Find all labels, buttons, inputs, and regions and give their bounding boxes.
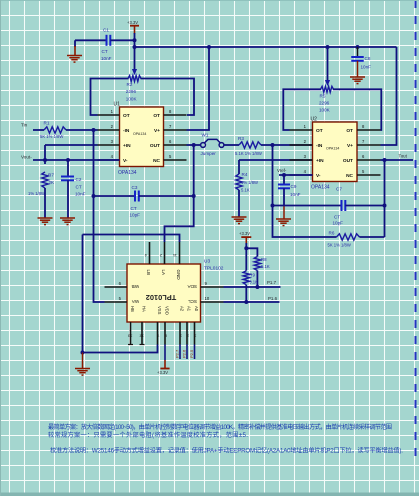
wire Vref- stub to U2 pin4 [279, 174, 313, 176]
wire C2 stem top [67, 160, 69, 177]
svg-text:CT: CT [102, 49, 108, 54]
resistor R1 [44, 127, 66, 133]
U2 pin 5 (NC) [357, 174, 381, 176]
svg-text:U3: U3 [204, 259, 210, 265]
U2 pin 1 (OT) [290, 129, 313, 131]
wire R6 right [360, 236, 385, 238]
wire feedback vertical right [384, 160, 386, 237]
power +3.3V down [164, 360, 166, 369]
svg-text:10nF: 10nF [361, 65, 372, 70]
wire +3.3V stem down [134, 33, 136, 47]
junction rail/R5 wiper [326, 45, 330, 49]
U3 pin 6 (WB) [105, 286, 128, 288]
svg-text:5K 1% 1/8W: 5K 1% 1/8W [328, 243, 351, 248]
wire loop right to U1 pin8 [141, 79, 195, 116]
junction Vout-/R7 [43, 158, 47, 162]
op-amp U1 OPA134 [120, 107, 164, 167]
svg-text:A2: A2 [180, 306, 185, 312]
svg-text:+3.3V: +3.3V [157, 370, 168, 375]
wire -IN U2 feedback down [273, 145, 337, 237]
U3 top pin 4 (LB) [149, 242, 151, 264]
svg-text:最简单方案：放大倍数固定(100~50)，由单片机控制数字电: 最简单方案：放大倍数固定(100~50)，由单片机控制数字电位器调节增益100K… [48, 423, 392, 431]
capacitor C9 [278, 185, 290, 189]
svg-text:TPL0102: TPL0102 [204, 266, 224, 272]
svg-text:5.1K: 5.1K [261, 264, 270, 269]
capacitor C2 [61, 177, 74, 181]
svg-text:2296: 2296 [319, 101, 330, 106]
U3 top pin 11 (GND) [179, 242, 181, 264]
svg-text:OT: OT [123, 113, 130, 119]
junction feedback/C3 [192, 194, 196, 198]
wire U2 OUT to Tout [381, 159, 414, 161]
capacitor C3 [135, 191, 139, 202]
capacitor C1 [107, 35, 111, 46]
wire loop right to U2 pin8 [333, 89, 381, 130]
digital potentiometer U3 TPL0102 [127, 264, 201, 322]
potentiometer R2 [128, 76, 141, 82]
svg-text:10nF: 10nF [290, 192, 301, 197]
wire pullup stem [245, 243, 247, 248]
U3 bottom pin 13 (HB) [130, 322, 132, 345]
svg-text:1% 1/8W: 1% 1/8W [28, 191, 45, 196]
U2 pin 6 (OUT) [357, 159, 381, 161]
U1 pin 2 (-IN) [98, 129, 120, 131]
U3 bottom pin 12 (HA) [141, 322, 143, 345]
svg-text:-IN: -IN [123, 128, 130, 134]
wire R1 to U1 pin2 [66, 129, 98, 131]
svg-text:10pF: 10pF [333, 221, 344, 226]
junction Vref/C9 [282, 173, 286, 177]
wire R2 wiper stem [134, 47, 136, 69]
wire R7 to ground [44, 188, 46, 218]
svg-text:OPA134: OPA134 [311, 185, 330, 191]
wire SDA / P1.7 [224, 286, 281, 288]
wire +IN down to R7 [44, 145, 46, 164]
svg-text:C8: C8 [365, 56, 371, 61]
U3 top pin 2 (LA) [164, 242, 166, 264]
svg-text:较常规方案一：只需要一个外部电阻(将基准作温度校准方式，范围: 较常规方案一：只需要一个外部电阻(将基准作温度校准方式，范围±5. [48, 431, 248, 439]
junction C7/vertical [383, 204, 387, 208]
wire C9 stem [283, 175, 285, 185]
U3 pin 9 (SDA) [201, 286, 224, 288]
U1 pin 7 (V+) [164, 129, 187, 131]
svg-text:LB: LB [146, 270, 151, 276]
wire U2 V+ to rail [381, 47, 397, 145]
svg-text:OT: OT [153, 113, 160, 119]
svg-text:10pF: 10pF [130, 213, 141, 218]
U3 bottom pin 7 (VSS) [157, 322, 159, 345]
op-amp U2 OPA134 [313, 122, 358, 182]
wire U3 VDD stem [164, 345, 166, 361]
svg-text:5K 1% 1/8W: 5K 1% 1/8W [40, 134, 63, 139]
svg-text:10nF: 10nF [101, 56, 112, 61]
svg-text:5.1K: 5.1K [241, 188, 250, 193]
U1 pin 8 (OT) [164, 114, 187, 116]
svg-text:Jumper: Jumper [201, 151, 217, 156]
svg-text:R8: R8 [261, 257, 267, 262]
svg-text:OPA134: OPA134 [133, 132, 146, 136]
svg-text:12: 12 [139, 334, 144, 339]
wire C1 right to +3.3V stem [110, 39, 134, 41]
ground near C1 [67, 56, 82, 63]
svg-text:CT: CT [131, 206, 137, 211]
svg-text:-IN: -IN [316, 143, 323, 149]
wire +3.3V rail [135, 46, 397, 48]
wire R4 to ground [238, 190, 240, 217]
power +3.3V pullups [241, 236, 251, 238]
junction R8/SDA [255, 285, 259, 289]
svg-text:Tin: Tin [21, 123, 28, 128]
svg-text:C1: C1 [103, 28, 109, 33]
svg-text:OPA134: OPA134 [326, 147, 339, 151]
wire U1 OUT to jumper [187, 144, 201, 146]
svg-text:+IN: +IN [316, 158, 324, 164]
wire R8 to SDA [256, 271, 258, 288]
resistor R8 [254, 257, 260, 271]
U1 pin 6 (OUT) [164, 144, 187, 146]
U2 pin 2 (-IN) [290, 144, 313, 146]
wire C1 left to ground riser [75, 39, 106, 41]
svg-text:VDD: VDD [165, 306, 170, 315]
svg-text:C9: C9 [291, 184, 297, 189]
junction C7 left [271, 204, 275, 208]
svg-text:WB: WB [132, 284, 139, 289]
svg-text:R7: R7 [48, 173, 54, 178]
svg-text:P1.6: P1.6 [268, 296, 278, 301]
wire SCL / P1.6 [224, 301, 280, 303]
junction R9/SCL [244, 300, 248, 304]
ground bottom left [75, 369, 90, 376]
junction rail/+3.3V [133, 45, 137, 49]
ground under C2 [60, 218, 75, 225]
junction OUT/feedback [192, 143, 196, 147]
svg-text:VSS: VSS [157, 306, 162, 315]
R2 wiper arrow [132, 69, 137, 75]
wire C9 lower stem [283, 188, 285, 205]
wire R4 node to U2 pin3 [239, 159, 313, 161]
U1 pin 3 (+IN) [98, 144, 120, 146]
wire C3 to OUT feedback [139, 195, 194, 197]
wire R5 wiper stem [327, 47, 329, 80]
svg-text:2296: 2296 [126, 89, 137, 94]
svg-text:5.1K 1% 1/8W: 5.1K 1% 1/8W [235, 151, 262, 156]
svg-text:+IN: +IN [123, 143, 131, 149]
svg-text:R5: R5 [320, 94, 326, 99]
svg-text:100K: 100K [126, 96, 138, 101]
svg-text:SDA: SDA [187, 284, 197, 289]
ground under R7 [38, 218, 53, 225]
U2 pin 8 (OT) [357, 129, 381, 131]
svg-text:V+: V+ [154, 128, 160, 134]
junction OUT/feedback [383, 158, 387, 162]
U2 pin 7 (V+) [357, 144, 381, 146]
svg-text:100K: 100K [319, 108, 331, 113]
svg-text:10: 10 [205, 296, 210, 301]
svg-text:13: 13 [127, 334, 132, 339]
wire U3 VSS to ground rail [83, 345, 158, 353]
wire to C7 [273, 205, 342, 207]
junction rail/C8 [356, 45, 360, 49]
wire +IN row [45, 144, 98, 146]
R5 wiper arrow [325, 80, 330, 86]
wire R9 to SCL [245, 285, 247, 302]
svg-text:V-: V- [123, 158, 128, 164]
svg-text:1% 1/8W: 1% 1/8W [241, 180, 258, 185]
junction -IN/C3 [92, 194, 96, 198]
svg-text:R6: R6 [329, 231, 335, 236]
svg-text:HB: HB [130, 306, 135, 312]
svg-text:OUT: OUT [343, 158, 353, 164]
svg-text:U2: U2 [311, 117, 318, 123]
svg-text:C7: C7 [336, 187, 342, 192]
U3 bottom pin 1 (A0) [194, 322, 196, 345]
wire Tin to R1 [33, 129, 44, 131]
svg-text:CT: CT [334, 215, 340, 220]
wire Vout- rail to U1 pin4 [33, 159, 120, 161]
svg-text:Vref-: Vref- [277, 168, 287, 173]
U1 pin 5 (NC) [164, 159, 187, 161]
wire GND vertical [82, 235, 84, 353]
junction C1/+3.3V [133, 38, 137, 42]
svg-text:Tout: Tout [399, 154, 408, 159]
svg-text:C3: C3 [132, 185, 138, 190]
capacitor C7 [342, 200, 346, 211]
junction Vout-/C2 [66, 158, 70, 162]
svg-text:V-: V- [316, 173, 321, 179]
wire C8 stem [357, 47, 359, 57]
wire -IN to C3 [94, 195, 136, 197]
wire jumper to R3 [224, 144, 239, 146]
svg-text:5.1K: 5.1K [249, 280, 258, 285]
wire R4 top lead [238, 160, 240, 174]
junction rail/U1 V+ [207, 45, 211, 49]
svg-text:R4: R4 [242, 172, 248, 177]
power +3.3V top [130, 25, 139, 27]
svg-text:P2.6: P2.6 [182, 349, 187, 358]
wire R3 to U2 pin2 [261, 144, 313, 146]
svg-text:R3: R3 [238, 136, 244, 141]
U3 bottom pin 8 (VDD) [164, 322, 166, 345]
junction pullups [244, 246, 248, 250]
svg-text:P2.7: P2.7 [175, 349, 180, 358]
sheet selection dashed line [415, 0, 417, 462]
svg-text:NC: NC [153, 158, 160, 164]
svg-text:A0: A0 [194, 306, 199, 312]
svg-text:P2.5: P2.5 [189, 349, 194, 358]
junction -IN U2 feedback [271, 143, 275, 147]
wire R9 top lead [245, 248, 247, 270]
ground under C8 [350, 77, 365, 84]
svg-text:SCL: SCL [188, 299, 197, 304]
svg-text:V+: V+ [347, 143, 353, 149]
U3 bottom pin 3 (A2) [179, 322, 181, 345]
jumper W1 [201, 139, 224, 147]
wire ground stem [74, 40, 76, 47]
svg-text:R9: R9 [249, 273, 255, 278]
svg-text:GND: GND [176, 270, 181, 281]
resistor R4 [236, 174, 242, 190]
U1 pin 1 (OT) [98, 114, 120, 116]
wire U1 V+ to rail [187, 47, 210, 130]
U3 pin 5 (WA) [105, 301, 128, 303]
U2 pin 4 (V-) [290, 174, 313, 176]
svg-text:+3.3V: +3.3V [127, 20, 138, 25]
resistor R7 [42, 172, 48, 188]
svg-text:Vout-: Vout- [21, 155, 32, 160]
svg-text:NC: NC [346, 173, 353, 179]
svg-text:TPL0102: TPL0102 [146, 293, 176, 302]
svg-text:10nF: 10nF [75, 192, 86, 197]
wire C7 to OUT vertical [345, 205, 384, 207]
resistor R3 [239, 142, 261, 148]
svg-text:OT: OT [316, 128, 323, 134]
svg-text:R2: R2 [127, 82, 133, 87]
wire OUT feedback down to U3 LA [165, 145, 194, 242]
potentiometer R5 [321, 86, 334, 92]
svg-text:P1.7: P1.7 [267, 280, 277, 285]
wire C8 to ground [357, 61, 359, 77]
U2 pin 3 (+IN) [290, 159, 313, 161]
U1 pin 4 (V-) [98, 159, 120, 161]
svg-text:+3.3V: +3.3V [239, 231, 250, 236]
svg-text:C2: C2 [76, 177, 82, 182]
resistor R6 [337, 234, 360, 240]
junction -IN/WA [92, 128, 96, 132]
svg-text:LA: LA [161, 270, 166, 277]
svg-text:U1: U1 [114, 102, 121, 108]
wire U2 pin1 loop left [283, 89, 321, 130]
resistor R9 [243, 271, 249, 285]
ground under R4 [232, 217, 247, 224]
svg-text:W1: W1 [202, 133, 209, 138]
wire GND net to U3 GND pin [83, 235, 180, 243]
wire -IN down to U3 WA [94, 130, 105, 302]
ground under C9 [276, 219, 291, 226]
svg-text:HA: HA [142, 306, 147, 312]
svg-text:CT: CT [76, 185, 82, 190]
svg-text:WA: WA [131, 299, 139, 304]
junction ground rail [81, 351, 85, 355]
U3 bottom pin 2 (A1) [186, 322, 188, 345]
wire U1 pin1 loop left [91, 79, 129, 116]
svg-text:OUT: OUT [150, 143, 160, 149]
wire to R8 top [246, 248, 257, 256]
svg-text:校准方法说明：W25146手动方式增益设置，记录值：使用JP: 校准方法说明：W25146手动方式增益设置，记录值：使用JPA+手动EEPROM… [50, 447, 403, 455]
capacitor C8 [351, 57, 364, 61]
svg-text:OPA134: OPA134 [118, 170, 137, 176]
svg-text:2K: 2K [49, 180, 56, 185]
wire C2 to ground [67, 180, 69, 218]
U3 pin 10 (SCL) [201, 301, 224, 303]
svg-text:A1: A1 [187, 306, 192, 312]
svg-text:R1: R1 [44, 121, 50, 126]
svg-text:OT: OT [346, 128, 353, 134]
